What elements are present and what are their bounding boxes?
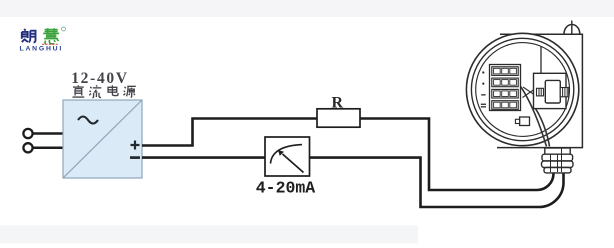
wire: resistor to housing (upper) xyxy=(360,119,554,191)
svg-text:4-20mA: 4-20mA xyxy=(256,179,316,198)
wire: gland to terminal block (internal) xyxy=(520,85,547,147)
terminal block pin markers xyxy=(481,71,486,107)
power supply PS1 (12-40V DC) xyxy=(63,100,142,178)
wire from T2 to power supply xyxy=(33,147,63,150)
慧 char (green) xyxy=(43,28,59,44)
cover circle inner xyxy=(476,43,570,137)
meter needle xyxy=(283,154,304,173)
cover circle middle xyxy=(471,38,573,140)
input terminal T2 xyxy=(23,143,32,152)
源 xyxy=(124,86,136,97)
直 xyxy=(73,85,85,97)
component: sensor block inside housing xyxy=(515,117,529,126)
流 xyxy=(89,85,101,97)
connector module J1 xyxy=(534,73,569,108)
wire: meter to housing (lower) xyxy=(310,158,564,207)
logo LANGHUI xyxy=(20,27,66,53)
red tiny text under logo xyxy=(42,43,59,45)
wire: PSU - terminal to meter xyxy=(142,156,265,159)
ammeter M1 (4-20mA) xyxy=(265,137,310,176)
wire: connector to terminal block (internal, lower) xyxy=(523,89,536,98)
wire: PSU + terminal to resistor xyxy=(142,119,317,146)
plus terminal label xyxy=(131,141,140,150)
电 xyxy=(108,85,118,95)
bracket line (connector support) xyxy=(540,46,542,73)
(R) mark xyxy=(62,27,66,31)
朗 char (navy) xyxy=(22,29,36,42)
cover circle outer xyxy=(466,33,578,145)
terminal block TB1 xyxy=(490,65,521,111)
wire from T1 to power supply xyxy=(33,132,63,135)
wire: gland to connector module (internal) xyxy=(534,106,550,147)
svg-text:12-40V: 12-40V xyxy=(71,70,129,87)
svg-text:R: R xyxy=(332,95,344,112)
label 直流电源 (DC power) drawn glyphs xyxy=(73,85,136,97)
wire: connector to terminal block (internal, upper) xyxy=(523,87,536,96)
transmitter housing U2 xyxy=(466,21,582,148)
input terminal T1 xyxy=(23,129,32,138)
AC tilde symbol xyxy=(78,117,98,124)
vent plug on top xyxy=(564,25,580,35)
minus terminal label xyxy=(130,156,140,159)
cable gland (transmitter entry) xyxy=(542,148,574,173)
svg-text:LANGHUI: LANGHUI xyxy=(20,46,64,53)
resistor R xyxy=(317,109,360,127)
meter scale arc xyxy=(271,145,303,164)
